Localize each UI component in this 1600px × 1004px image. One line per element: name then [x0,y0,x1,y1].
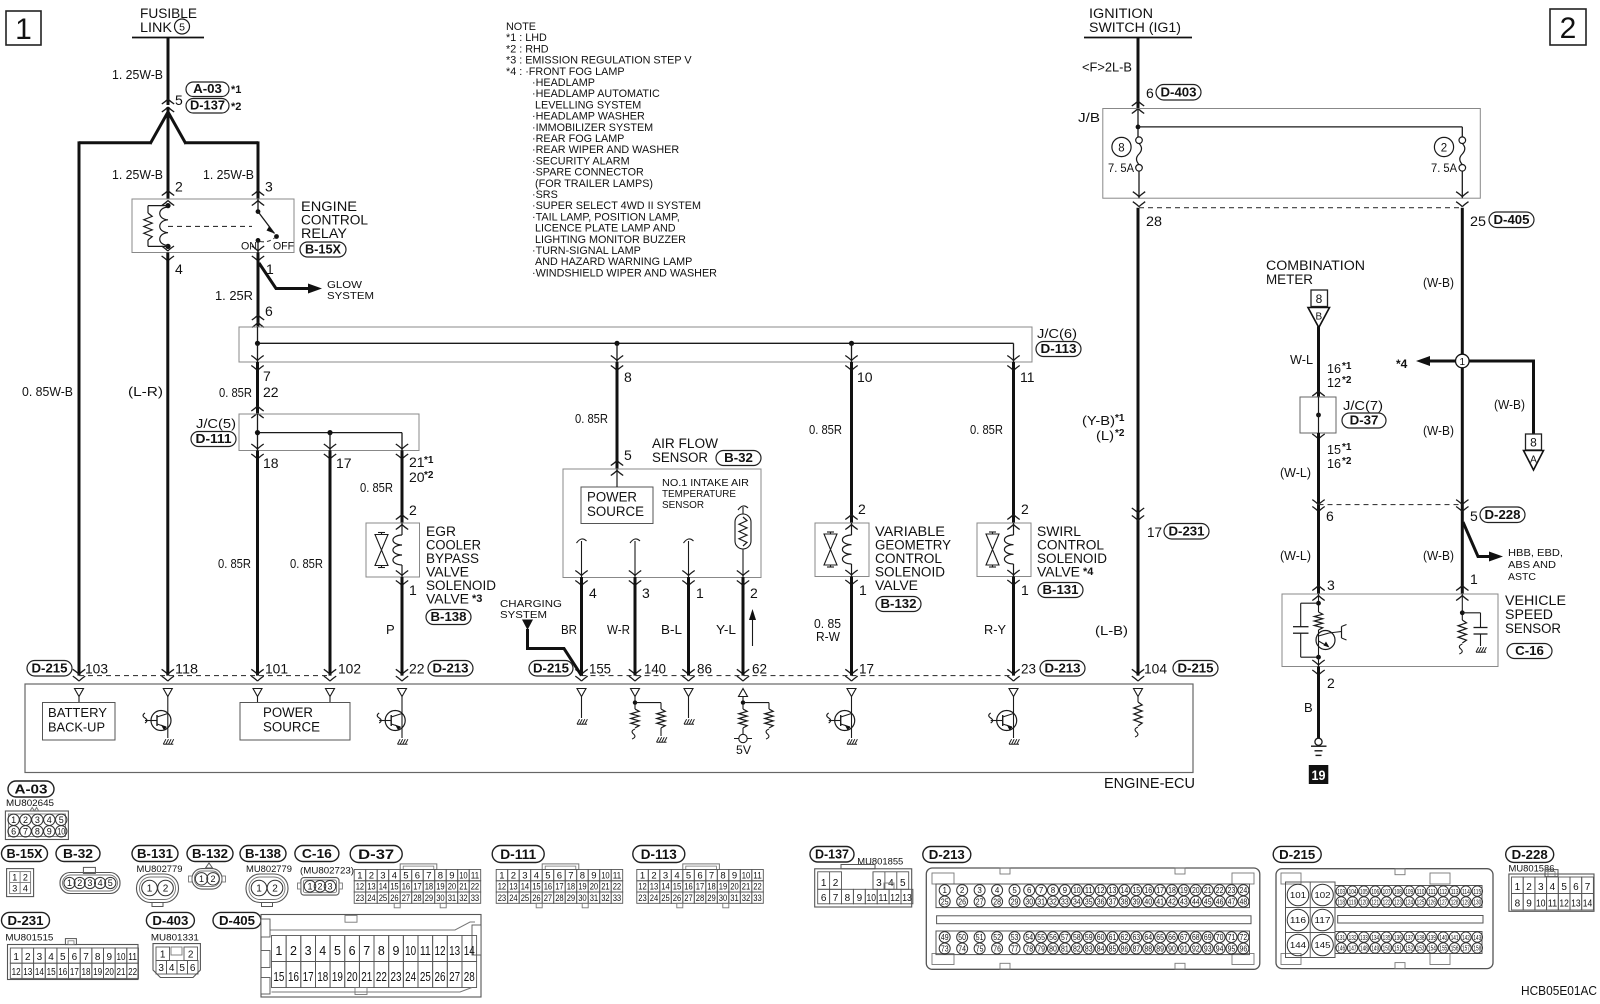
svg-text:42: 42 [1168,897,1176,906]
svg-text:3: 3 [327,882,332,892]
svg-text:(L): (L) [1096,428,1114,443]
svg-text:19: 19 [436,882,445,893]
svg-text:23: 23 [638,893,647,904]
connector pin grid D-111 [492,846,544,863]
svg-text:BR: BR [561,622,577,637]
svg-text:33: 33 [613,893,622,904]
svg-text:5: 5 [1561,882,1567,893]
svg-text:(W-B): (W-B) [1423,275,1454,290]
wire 0.85R J/C(6) pin8 to air flow sensor [616,362,619,469]
svg-text:8: 8 [580,870,585,881]
svg-text:4: 4 [169,963,175,974]
svg-text:132: 132 [1349,933,1357,942]
svg-text:D-137: D-137 [815,846,849,861]
svg-text:8: 8 [845,893,851,904]
svg-text:26: 26 [390,893,399,904]
svg-text:125: 125 [1417,898,1425,907]
branch arrow to HBB EBD ABS [1463,522,1490,557]
svg-text:39: 39 [1132,897,1140,906]
svg-text:90: 90 [1168,944,1176,953]
svg-text:52: 52 [993,933,1001,942]
svg-text:11: 11 [1085,886,1093,895]
svg-text:4: 4 [23,884,28,894]
EGR solenoid coil [401,523,403,535]
svg-text:2: 2 [23,873,28,883]
svg-text:ON: ON [241,241,257,253]
connector pin grid D-113 [633,846,685,863]
signal direction arrow up [752,616,754,646]
svg-text:149: 149 [1371,944,1379,953]
svg-text:136: 136 [1394,933,1402,942]
svg-text:1: 1 [409,582,417,598]
connector A-03 pinout [8,781,54,797]
svg-text:1: 1 [696,585,704,601]
svg-text:Y-L: Y-L [716,622,736,637]
svg-text:70: 70 [1216,933,1224,942]
svg-text:76: 76 [993,944,1001,953]
svg-text:6: 6 [697,870,702,881]
svg-text:6: 6 [1027,886,1032,895]
ECU transistor at pin 22 [401,697,403,739]
svg-text:16: 16 [58,967,67,978]
svg-text:RELAY: RELAY [301,226,347,241]
svg-text:8: 8 [624,369,632,385]
svg-text:3: 3 [380,870,385,881]
relay pin 1 out [252,246,264,251]
svg-text:21: 21 [1204,886,1212,895]
svg-text:TEMPERATURE: TEMPERATURE [662,489,736,500]
svg-text:3: 3 [876,878,882,889]
svg-text:51: 51 [976,933,984,942]
svg-text:*2: *2 [1342,375,1352,386]
svg-text:BACK-UP: BACK-UP [48,720,105,735]
svg-text:102: 102 [1314,890,1331,900]
svg-text:108: 108 [1394,887,1402,896]
svg-text:141: 141 [1451,933,1459,942]
svg-text:13: 13 [650,882,659,893]
svg-text:137: 137 [1405,933,1413,942]
svg-text:0. 85R: 0. 85R [575,411,608,426]
svg-text:119: 119 [1349,898,1357,907]
fuse 2 7.5A [1459,137,1466,144]
connector D-231 pinout [2,912,50,928]
svg-text:1: 1 [11,815,16,825]
svg-text:D-111: D-111 [196,432,232,446]
svg-text:6: 6 [1326,508,1334,524]
svg-text:74: 74 [958,944,966,953]
junction connector J/C(6) D-113 box [239,327,1032,362]
svg-text:11: 11 [420,944,431,958]
svg-text:21: 21 [742,882,751,893]
EGR valve symbol [375,535,388,566]
wire J/C(6) pin7 to J/C(5) pin22 [256,362,259,414]
ECU ground at pin 86 [688,697,690,719]
svg-text:138: 138 [1417,933,1425,942]
svg-text:1. 25W-B: 1. 25W-B [203,167,254,182]
svg-text:18: 18 [1168,886,1176,895]
svg-text:D-215: D-215 [32,661,68,675]
connector pin grid D-37 [350,846,402,863]
svg-text:1. 25R: 1. 25R [215,288,253,303]
svg-text:J/B: J/B [1078,110,1100,125]
svg-text:84: 84 [1097,944,1105,953]
svg-text:13: 13 [509,882,518,893]
svg-text:48: 48 [1240,897,1248,906]
arrow to *4 systems [1429,360,1456,363]
svg-text:127: 127 [1439,898,1447,907]
svg-text:28: 28 [696,893,705,904]
svg-text:5: 5 [175,92,183,108]
connector B-15X pinout [2,846,48,862]
svg-text:69: 69 [1204,933,1212,942]
svg-text:112: 112 [1439,887,1447,896]
svg-text:AND HAZARD WARNING LAMP: AND HAZARD WARNING LAMP [535,256,692,268]
svg-text:27: 27 [544,893,553,904]
svg-text:6: 6 [349,944,356,958]
svg-text:143: 143 [1473,933,1481,942]
wire W-L to vehicle speed sensor [1317,505,1320,594]
svg-text:*2: *2 [231,101,241,113]
svg-text:6: 6 [1146,85,1154,101]
svg-text:19: 19 [1180,886,1188,895]
J/C(6) internal bus [258,342,1014,344]
svg-text:*3: *3 [472,593,482,605]
connector D-215 pinout [1273,846,1321,862]
svg-text:<F>2L-B: <F>2L-B [1082,60,1132,75]
svg-text:22: 22 [128,967,137,978]
svg-text:17: 17 [303,970,314,984]
svg-text:17: 17 [1156,886,1164,895]
svg-text:3: 3 [35,815,40,825]
svg-text:1: 1 [12,873,17,883]
svg-text:73: 73 [941,944,949,953]
relay switch [257,199,259,212]
svg-text:D-37: D-37 [1350,413,1379,427]
svg-text:1: 1 [1460,357,1466,368]
svg-text:A: A [1530,455,1537,466]
svg-text:31: 31 [590,893,599,904]
engine ECU box [25,684,1193,773]
svg-text:10: 10 [601,870,610,881]
svg-text:30: 30 [436,893,445,904]
svg-text:41: 41 [1156,897,1164,906]
junction connector J/C(5) D-111 box [239,414,419,451]
svg-text:2: 2 [651,870,656,881]
svg-text:29: 29 [707,893,716,904]
svg-text:7: 7 [363,944,370,958]
svg-text:3: 3 [1538,882,1544,893]
svg-text:133: 133 [1360,933,1368,942]
svg-text:10: 10 [1536,899,1546,910]
svg-text:86: 86 [1121,944,1129,953]
svg-text:17: 17 [1147,524,1162,540]
svg-text:102: 102 [338,661,361,677]
svg-text:3: 3 [37,952,43,963]
svg-text:32: 32 [742,893,751,904]
svg-text:22: 22 [376,970,387,984]
svg-text:25: 25 [379,893,388,904]
air flow sensor box B-32 [563,469,761,578]
svg-text:18: 18 [263,455,279,471]
svg-text:2: 2 [23,815,28,825]
svg-text:14: 14 [35,967,44,978]
svg-text:118: 118 [175,661,198,677]
svg-text:1: 1 [640,870,645,881]
svg-text:155: 155 [1439,944,1447,953]
svg-text:22: 22 [263,384,279,400]
svg-text:·REAR FOG LAMP: ·REAR FOG LAMP [532,133,624,145]
svg-text:22: 22 [753,882,762,893]
svg-text:5: 5 [1012,886,1017,895]
svg-text:LINK: LINK [140,20,172,35]
svg-text:SPEED: SPEED [1505,607,1553,622]
svg-text:9: 9 [591,870,596,881]
svg-text:1: 1 [942,886,947,895]
svg-text:4: 4 [319,944,326,958]
svg-text:13: 13 [23,967,32,978]
svg-text:7: 7 [23,827,28,837]
svg-text:117: 117 [1314,915,1331,925]
wire 0.85R to ECU 102 [329,451,332,676]
svg-text:(Y-B): (Y-B) [1082,413,1115,428]
svg-text:SENSOR: SENSOR [652,450,708,465]
svg-text:J/C(7): J/C(7) [1343,399,1383,413]
svg-text:95: 95 [1228,944,1236,953]
svg-text:144: 144 [1290,940,1307,950]
wire B to ground 19 [1317,667,1320,739]
svg-text:10: 10 [742,870,751,881]
svg-text:72: 72 [1240,933,1248,942]
svg-text:GLOW: GLOW [327,280,363,291]
svg-text:AIR FLOW: AIR FLOW [652,436,718,451]
svg-text:10: 10 [116,952,125,963]
svg-text:8: 8 [1515,899,1521,910]
ECU resistor at pin 104 [1137,697,1139,703]
battery back-up box [78,697,80,703]
ECU 5V reference at pin 62 [742,697,744,710]
svg-text:·SUPER SELECT 4WD II SYSTEM: ·SUPER SELECT 4WD II SYSTEM [532,200,701,212]
svg-text:POWER: POWER [263,705,313,720]
svg-text:MU802779: MU802779 [246,864,292,874]
connector D-403 pinout [146,912,194,928]
svg-text:114: 114 [1462,887,1470,896]
svg-text:10: 10 [57,827,65,837]
svg-text:13: 13 [367,882,376,893]
svg-text:12: 12 [1097,886,1105,895]
svg-text:78: 78 [1025,944,1033,953]
svg-text:5V: 5V [736,745,751,757]
svg-text:40: 40 [1144,897,1152,906]
svg-text:MU802645: MU802645 [6,798,54,808]
svg-text:6: 6 [190,963,196,974]
svg-text:20: 20 [409,469,425,485]
svg-text:107: 107 [1383,887,1391,896]
svg-text:(L-R): (L-R) [128,384,163,399]
VSS left branch capacitor and resistor [1318,594,1320,612]
svg-text:10: 10 [1073,886,1081,895]
svg-text:2: 2 [272,884,278,895]
svg-text:15: 15 [390,882,399,893]
svg-text:20: 20 [1192,886,1200,895]
svg-text:·SECURITY ALARM: ·SECURITY ALARM [532,155,630,167]
svg-text:28: 28 [993,897,1001,906]
svg-text:21: 21 [409,454,425,470]
svg-text:80: 80 [1049,944,1057,953]
svg-text:104: 104 [1144,661,1167,677]
svg-text:1: 1 [307,882,312,892]
svg-text:D-213: D-213 [929,847,965,862]
svg-text:121: 121 [1371,898,1379,907]
svg-text:54: 54 [1025,933,1033,942]
svg-text:ABS AND: ABS AND [1508,560,1556,571]
svg-text:8: 8 [1118,142,1124,154]
svg-text:·WINDSHIELD WIPER AND WASHER: ·WINDSHIELD WIPER AND WASHER [532,267,717,279]
svg-text:92: 92 [1192,944,1200,953]
svg-text:146: 146 [1337,944,1345,953]
wire W-L from meter [1317,327,1320,398]
svg-text:29: 29 [1011,897,1019,906]
svg-text:C-16: C-16 [302,846,332,861]
VGC pin 1 out [845,570,857,575]
svg-text:3: 3 [977,886,982,895]
svg-text:*4: *4 [1396,357,1408,371]
svg-text:1: 1 [821,878,827,889]
svg-text:128: 128 [1451,898,1459,907]
svg-text:5: 5 [108,878,113,888]
ECU transistor at pin 23 [1013,697,1015,739]
svg-text:4: 4 [48,952,54,963]
svg-text:SYSTEM: SYSTEM [500,610,547,621]
svg-text:156: 156 [1451,944,1459,953]
svg-text:7: 7 [709,870,714,881]
svg-text:9: 9 [449,870,454,881]
svg-text:79: 79 [1037,944,1045,953]
svg-text:27: 27 [449,970,460,984]
svg-text:27: 27 [976,897,984,906]
svg-text:101: 101 [265,661,288,677]
J/C(6) output pins [251,356,263,361]
svg-text:19: 19 [332,970,343,984]
svg-text:18: 18 [425,882,434,893]
svg-text:17: 17 [696,882,705,893]
svg-text:17: 17 [555,882,564,893]
svg-text:2: 2 [188,950,194,961]
svg-text:33: 33 [753,893,762,904]
svg-text:2: 2 [163,884,169,895]
svg-text:2: 2 [1560,12,1577,45]
svg-text:22: 22 [613,882,622,893]
svg-text:R-Y: R-Y [984,622,1006,637]
svg-text:17: 17 [70,967,79,978]
svg-text:9: 9 [1063,886,1068,895]
svg-text:0. 85R: 0. 85R [290,556,323,571]
svg-text:11: 11 [613,870,622,881]
AFS internal wire stubs [577,539,587,543]
svg-text:·HEADLAMP AUTOMATIC: ·HEADLAMP AUTOMATIC [532,88,660,100]
J/B internal bus [1137,109,1139,138]
svg-text:1: 1 [357,870,362,881]
svg-text:SYSTEM: SYSTEM [327,291,374,302]
wire L-R down to ECU 118 [166,253,169,676]
svg-text:*1: *1 [1342,361,1352,372]
svg-text:103: 103 [85,661,108,677]
svg-text:·IMMOBILIZER SYSTEM: ·IMMOBILIZER SYSTEM [532,122,653,134]
svg-text:24: 24 [367,893,376,904]
wire 0.85R to variable geometry control solenoid [850,362,853,523]
svg-text:124: 124 [1405,898,1413,907]
svg-text:63: 63 [1132,933,1140,942]
svg-text:150: 150 [1383,944,1391,953]
svg-text:*4: *4 [1083,566,1094,578]
svg-text:151: 151 [1394,944,1402,953]
svg-text:18: 18 [707,882,716,893]
svg-text:5: 5 [1470,508,1478,524]
svg-text:D-213: D-213 [1045,661,1081,675]
AFS output pins 4 3 1 2 [575,571,587,576]
svg-text:D-405: D-405 [219,913,255,928]
svg-text:5: 5 [545,870,550,881]
svg-text:118: 118 [1337,898,1345,907]
connector B-132 pinout [187,846,233,862]
svg-text:1: 1 [1470,571,1478,587]
wire split three ways [150,112,168,144]
svg-text:13: 13 [902,893,912,904]
svg-text:(W-B): (W-B) [1423,548,1454,563]
svg-text:8: 8 [438,870,443,881]
svg-text:*2: *2 [1342,456,1352,467]
svg-text:COMBINATION: COMBINATION [1266,258,1365,273]
svg-text:J/C(6): J/C(6) [1037,327,1077,341]
svg-text:135: 135 [1383,933,1391,942]
svg-text:25: 25 [661,893,670,904]
svg-text:14: 14 [379,882,388,893]
svg-text:0. 85R: 0. 85R [360,480,393,495]
svg-text:15: 15 [1132,886,1140,895]
connector D-228 crossing [1312,500,1324,505]
svg-text:22: 22 [471,882,480,893]
svg-text:D-113: D-113 [1041,342,1077,356]
svg-text:18: 18 [317,970,328,984]
svg-text:8: 8 [1530,436,1537,450]
svg-text:2: 2 [1441,142,1447,154]
svg-text:22: 22 [409,661,425,677]
svg-text:2: 2 [175,179,183,195]
svg-text:65: 65 [1156,933,1164,942]
svg-text:19: 19 [93,967,102,978]
svg-text:5: 5 [900,878,906,889]
svg-text:12: 12 [638,882,647,893]
body ground symbol [1315,738,1322,745]
svg-text:1: 1 [67,878,72,888]
svg-text:6: 6 [11,827,16,837]
svg-text:9: 9 [857,893,863,904]
svg-text:5: 5 [179,963,185,974]
inline connector D-231 pin 17 [1132,508,1144,513]
ECU connector dashed line D-215/D-213 [27,661,72,677]
svg-text:D-228: D-228 [1512,847,1548,862]
svg-text:12: 12 [498,882,507,893]
svg-text:4: 4 [589,585,597,601]
svg-text:*1: *1 [1342,442,1352,453]
svg-text:32: 32 [601,893,610,904]
svg-text:5: 5 [60,952,66,963]
svg-text:10: 10 [867,893,877,904]
svg-text:105: 105 [1360,887,1368,896]
svg-text:129: 129 [1462,898,1470,907]
svg-text:4: 4 [534,870,539,881]
svg-text:POWER: POWER [587,490,637,505]
power source box inside AFS [581,487,653,524]
